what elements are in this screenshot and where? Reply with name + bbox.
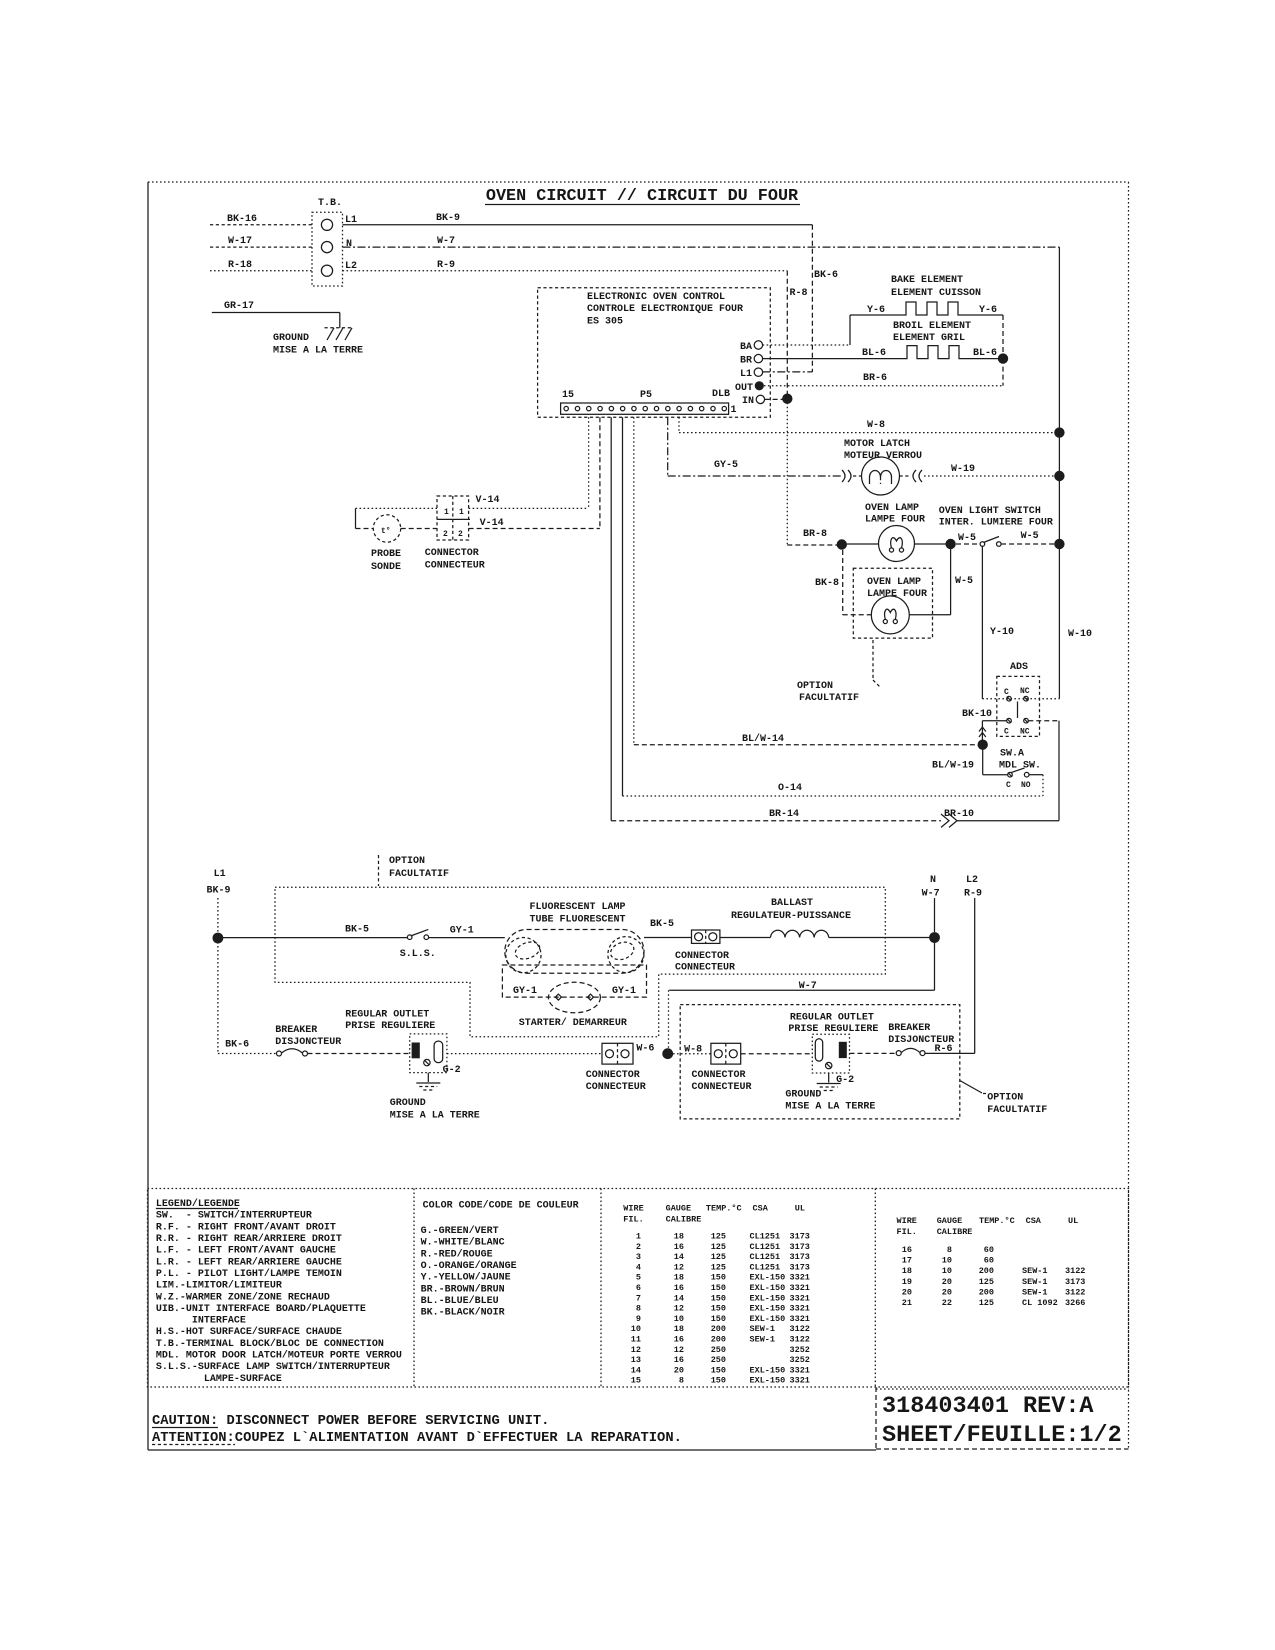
svg-text:BR: BR bbox=[740, 356, 752, 367]
svg-text:SHEET/FEUILLE:1/2: SHEET/FEUILLE:1/2 bbox=[882, 1422, 1122, 1449]
svg-text:9: 9 bbox=[636, 1314, 641, 1324]
svg-text:BALLAST: BALLAST bbox=[771, 898, 813, 909]
svg-text:6: 6 bbox=[636, 1283, 641, 1293]
svg-text:SEW-1: SEW-1 bbox=[1022, 1277, 1048, 1287]
svg-text:W-5: W-5 bbox=[955, 576, 973, 587]
svg-text:OVEN LAMP: OVEN LAMP bbox=[867, 577, 921, 588]
svg-text:2: 2 bbox=[443, 530, 448, 539]
svg-text:R.F. - RIGHT FRONT/AVANT DROIT: R.F. - RIGHT FRONT/AVANT DROIT bbox=[156, 1221, 336, 1233]
svg-text:PRISE REGULIERE: PRISE REGULIERE bbox=[788, 1024, 878, 1035]
svg-text:3173: 3173 bbox=[790, 1252, 810, 1262]
svg-text:NC: NC bbox=[1020, 728, 1030, 737]
svg-text:BL.-BLUE/BLEU: BL.-BLUE/BLEU bbox=[421, 1295, 499, 1307]
svg-text:V-14: V-14 bbox=[480, 518, 504, 529]
svg-text:CONNECTEUR: CONNECTEUR bbox=[586, 1082, 646, 1093]
svg-text:125: 125 bbox=[711, 1232, 726, 1242]
svg-text:W-8: W-8 bbox=[867, 420, 885, 431]
svg-text:BL/W-19: BL/W-19 bbox=[932, 760, 974, 772]
svg-text:150: 150 bbox=[711, 1293, 726, 1303]
svg-text:TEMP.°C: TEMP.°C bbox=[706, 1204, 742, 1214]
svg-text:SONDE: SONDE bbox=[371, 562, 401, 573]
svg-text:CONNECTOR: CONNECTOR bbox=[675, 951, 729, 962]
svg-text:17: 17 bbox=[902, 1256, 912, 1266]
svg-text:R.R. - RIGHT REAR/ARRIERE DROI: R.R. - RIGHT REAR/ARRIERE DROIT bbox=[156, 1233, 342, 1245]
svg-text:FIL.: FIL. bbox=[623, 1215, 643, 1225]
svg-text:LAMPE FOUR: LAMPE FOUR bbox=[867, 589, 927, 600]
svg-text:T.B.: T.B. bbox=[318, 198, 342, 209]
svg-text:12: 12 bbox=[674, 1262, 684, 1272]
svg-text:GAUGE: GAUGE bbox=[937, 1216, 963, 1226]
svg-text:GY-5: GY-5 bbox=[714, 460, 738, 471]
svg-text:MOTOR LATCH: MOTOR LATCH bbox=[844, 439, 910, 450]
svg-text:16: 16 bbox=[674, 1355, 684, 1365]
svg-text:W.Z.-WARMER ZONE/ZONE RECHAUD: W.Z.-WARMER ZONE/ZONE RECHAUD bbox=[156, 1291, 330, 1303]
svg-text:CALIBRE: CALIBRE bbox=[666, 1215, 702, 1225]
svg-text:CL1251: CL1251 bbox=[750, 1232, 781, 1242]
svg-text:G-2: G-2 bbox=[836, 1075, 854, 1086]
svg-text:125: 125 bbox=[979, 1277, 994, 1287]
svg-text:EXL-150: EXL-150 bbox=[750, 1376, 786, 1386]
svg-text:CONNECTEUR: CONNECTEUR bbox=[425, 561, 485, 572]
svg-text:W-6: W-6 bbox=[636, 1044, 654, 1055]
svg-text:BREAKER: BREAKER bbox=[888, 1023, 930, 1034]
svg-text:BR.-BROWN/BRUN: BR.-BROWN/BRUN bbox=[421, 1283, 505, 1295]
svg-text:3173: 3173 bbox=[790, 1232, 810, 1242]
svg-text:BL-6: BL-6 bbox=[862, 348, 886, 359]
svg-text:G.-GREEN/VERT: G.-GREEN/VERT bbox=[421, 1225, 499, 1237]
svg-text:OPTION: OPTION bbox=[389, 856, 425, 867]
svg-text:3122: 3122 bbox=[790, 1335, 810, 1345]
svg-text:12: 12 bbox=[631, 1345, 641, 1355]
svg-text:BK-9: BK-9 bbox=[207, 886, 231, 897]
svg-text:ELEMENT GRIL: ELEMENT GRIL bbox=[893, 333, 965, 344]
svg-text:2: 2 bbox=[636, 1242, 641, 1252]
svg-text:13: 13 bbox=[631, 1355, 641, 1365]
svg-text:R-8: R-8 bbox=[790, 288, 808, 299]
svg-text:GR-17: GR-17 bbox=[224, 301, 254, 312]
svg-text:15: 15 bbox=[631, 1376, 641, 1386]
svg-text:60: 60 bbox=[984, 1256, 994, 1266]
svg-text:L1: L1 bbox=[214, 869, 226, 880]
svg-text:21: 21 bbox=[902, 1298, 912, 1308]
svg-text:CONNECTEUR: CONNECTEUR bbox=[675, 963, 735, 974]
svg-text:150: 150 bbox=[711, 1314, 726, 1324]
svg-text:10: 10 bbox=[942, 1256, 952, 1266]
svg-text:Y-6: Y-6 bbox=[979, 305, 997, 316]
svg-text:SEW-1: SEW-1 bbox=[1022, 1266, 1048, 1276]
svg-text:ELEMENT CUISSON: ELEMENT CUISSON bbox=[891, 288, 981, 299]
svg-text:250: 250 bbox=[711, 1345, 726, 1355]
svg-text:150: 150 bbox=[711, 1283, 726, 1293]
svg-text:3321: 3321 bbox=[790, 1283, 810, 1293]
svg-text:P5: P5 bbox=[640, 390, 652, 401]
svg-text:EXL-150: EXL-150 bbox=[750, 1304, 786, 1314]
svg-text:ES 305: ES 305 bbox=[587, 317, 623, 328]
svg-text:BK-8: BK-8 bbox=[815, 578, 839, 589]
svg-text:C: C bbox=[1004, 688, 1009, 697]
svg-text:LAMPE-SURFACE: LAMPE-SURFACE bbox=[156, 1374, 282, 1385]
svg-text:O.-ORANGE/ORANGE: O.-ORANGE/ORANGE bbox=[421, 1260, 517, 1272]
svg-text:125: 125 bbox=[711, 1242, 726, 1252]
svg-text:20: 20 bbox=[942, 1277, 952, 1287]
svg-text:T.B.-TERMINAL BLOCK/BLOC DE CO: T.B.-TERMINAL BLOCK/BLOC DE CONNECTION bbox=[156, 1338, 384, 1350]
svg-text:BR-8: BR-8 bbox=[803, 529, 827, 540]
svg-text:GROUND: GROUND bbox=[785, 1090, 821, 1101]
svg-text:200: 200 bbox=[979, 1266, 994, 1276]
svg-text:150: 150 bbox=[711, 1376, 726, 1386]
svg-text:BREAKER: BREAKER bbox=[275, 1025, 317, 1036]
svg-text:LAMPE FOUR: LAMPE FOUR bbox=[865, 515, 925, 526]
svg-text:L2: L2 bbox=[966, 875, 978, 886]
svg-text:REGULAR OUTLET: REGULAR OUTLET bbox=[790, 1013, 874, 1024]
svg-text:22: 22 bbox=[942, 1298, 952, 1308]
svg-text:8: 8 bbox=[947, 1245, 952, 1255]
svg-text:Y-10: Y-10 bbox=[990, 627, 1014, 638]
svg-text:BR-6: BR-6 bbox=[863, 373, 887, 384]
svg-text:OUT: OUT bbox=[735, 383, 753, 394]
svg-text:L.F. - LEFT FRONT/AVANT GAUCHE: L.F. - LEFT FRONT/AVANT GAUCHE bbox=[156, 1245, 336, 1257]
svg-text:t°: t° bbox=[381, 527, 391, 536]
svg-text:W-19: W-19 bbox=[951, 464, 975, 475]
svg-text:3173: 3173 bbox=[790, 1262, 810, 1272]
svg-text:18: 18 bbox=[674, 1232, 684, 1242]
svg-text:3173: 3173 bbox=[1065, 1277, 1085, 1287]
svg-text:FIL.: FIL. bbox=[897, 1227, 917, 1237]
svg-text:8: 8 bbox=[636, 1304, 641, 1314]
svg-text:200: 200 bbox=[711, 1324, 726, 1334]
svg-text:125: 125 bbox=[711, 1252, 726, 1262]
svg-text:OPTION: OPTION bbox=[797, 681, 833, 692]
svg-text:FLUORESCENT LAMP: FLUORESCENT LAMP bbox=[530, 902, 626, 913]
svg-text:250: 250 bbox=[711, 1355, 726, 1365]
svg-text:BK-9: BK-9 bbox=[436, 213, 460, 224]
svg-text:INTER. LUMIERE FOUR: INTER. LUMIERE FOUR bbox=[939, 518, 1053, 529]
svg-text:CSA: CSA bbox=[1026, 1216, 1042, 1226]
svg-text:OVEN CIRCUIT // CIRCUIT DU FOU: OVEN CIRCUIT // CIRCUIT DU FOUR bbox=[486, 187, 799, 206]
svg-text:125: 125 bbox=[711, 1262, 726, 1272]
svg-text:19: 19 bbox=[902, 1277, 912, 1287]
svg-text:3252: 3252 bbox=[790, 1345, 810, 1355]
svg-text:PROBE: PROBE bbox=[371, 549, 401, 560]
svg-text:DISJONCTEUR: DISJONCTEUR bbox=[275, 1037, 341, 1048]
svg-text:7: 7 bbox=[636, 1293, 641, 1303]
svg-text:BK-5: BK-5 bbox=[650, 919, 674, 930]
svg-text:DLB: DLB bbox=[712, 389, 730, 400]
svg-text:150: 150 bbox=[711, 1365, 726, 1375]
svg-text:16: 16 bbox=[902, 1245, 912, 1255]
svg-text:CL 1092: CL 1092 bbox=[1022, 1298, 1058, 1308]
svg-text:3122: 3122 bbox=[790, 1324, 810, 1334]
svg-text:EXL-150: EXL-150 bbox=[750, 1365, 786, 1375]
svg-text:3321: 3321 bbox=[790, 1314, 810, 1324]
svg-text:OVEN LIGHT SWITCH: OVEN LIGHT SWITCH bbox=[939, 506, 1041, 517]
svg-text:REGULATEUR-PUISSANCE: REGULATEUR-PUISSANCE bbox=[731, 911, 851, 922]
svg-text:16: 16 bbox=[674, 1335, 684, 1345]
svg-text:N: N bbox=[930, 875, 936, 886]
svg-text:3173: 3173 bbox=[790, 1242, 810, 1252]
svg-text:SW. - SWITCH/INTERRUPTEUR: SW. - SWITCH/INTERRUPTEUR bbox=[156, 1210, 312, 1222]
svg-text:BK-5: BK-5 bbox=[345, 925, 369, 936]
svg-text:60: 60 bbox=[984, 1245, 994, 1255]
svg-text:W-5: W-5 bbox=[1021, 531, 1039, 542]
svg-text:MISE A LA TERRE: MISE A LA TERRE bbox=[390, 1111, 480, 1122]
svg-text:15: 15 bbox=[562, 390, 574, 401]
svg-text:FACULTATIF: FACULTATIF bbox=[799, 693, 859, 704]
svg-text:LIM.-LIMITOR/LIMITEUR: LIM.-LIMITOR/LIMITEUR bbox=[156, 1280, 282, 1292]
svg-text:GROUND: GROUND bbox=[273, 333, 309, 344]
svg-text:20: 20 bbox=[674, 1365, 684, 1375]
svg-text:16: 16 bbox=[674, 1283, 684, 1293]
svg-text:CONNECTEUR: CONNECTEUR bbox=[692, 1082, 752, 1093]
svg-text:L1: L1 bbox=[740, 369, 752, 380]
svg-text:GAUGE: GAUGE bbox=[666, 1204, 692, 1214]
svg-text:200: 200 bbox=[711, 1335, 726, 1345]
svg-text:EXL-150: EXL-150 bbox=[750, 1314, 786, 1324]
svg-text:3321: 3321 bbox=[790, 1293, 810, 1303]
svg-text:C: C bbox=[1004, 728, 1009, 737]
svg-text:OPTION: OPTION bbox=[987, 1093, 1023, 1104]
svg-text:125: 125 bbox=[979, 1298, 994, 1308]
svg-text:3321: 3321 bbox=[790, 1365, 810, 1375]
svg-text:BROIL ELEMENT: BROIL ELEMENT bbox=[893, 321, 971, 332]
svg-text:ADS: ADS bbox=[1010, 662, 1028, 673]
svg-text:WIRE: WIRE bbox=[897, 1216, 917, 1226]
svg-text:8: 8 bbox=[679, 1376, 684, 1386]
svg-text:18: 18 bbox=[902, 1266, 912, 1276]
svg-text:TEMP.°C: TEMP.°C bbox=[979, 1216, 1015, 1226]
svg-text:W-17: W-17 bbox=[228, 236, 252, 247]
svg-text:MDL. MOTOR DOOR LATCH/MOTEUR P: MDL. MOTOR DOOR LATCH/MOTEUR PORTE VERRO… bbox=[156, 1350, 402, 1362]
svg-text:MISE A LA TERRE: MISE A LA TERRE bbox=[273, 346, 363, 357]
svg-text:UIB.-UNIT INTERFACE BOARD/PLAQ: UIB.-UNIT INTERFACE BOARD/PLAQUETTE bbox=[156, 1303, 366, 1315]
svg-text:318403401 REV:A: 318403401 REV:A bbox=[882, 1393, 1094, 1420]
svg-text:BAKE ELEMENT: BAKE ELEMENT bbox=[891, 275, 963, 286]
svg-text:16: 16 bbox=[674, 1242, 684, 1252]
svg-text:BK.-BLACK/NOIR: BK.-BLACK/NOIR bbox=[421, 1307, 505, 1319]
svg-text:H.S.-HOT SURFACE/SURFACE CHAUD: H.S.-HOT SURFACE/SURFACE CHAUDE bbox=[156, 1326, 342, 1338]
svg-text:Y.-YELLOW/JAUNE: Y.-YELLOW/JAUNE bbox=[421, 1272, 511, 1284]
svg-text:GY-1: GY-1 bbox=[612, 986, 636, 997]
svg-text:W-7: W-7 bbox=[922, 889, 940, 900]
svg-text:18: 18 bbox=[674, 1324, 684, 1334]
svg-text:SW.A: SW.A bbox=[1000, 749, 1024, 760]
svg-text:14: 14 bbox=[674, 1293, 684, 1303]
svg-text:20: 20 bbox=[942, 1287, 952, 1297]
svg-text:3252: 3252 bbox=[790, 1355, 810, 1365]
svg-text:OVEN LAMP: OVEN LAMP bbox=[865, 503, 919, 514]
svg-text:V-14: V-14 bbox=[476, 495, 500, 506]
svg-text:3: 3 bbox=[636, 1252, 641, 1262]
svg-text:O-14: O-14 bbox=[778, 783, 802, 794]
svg-text:S.L.S.-SURFACE LAMP SWITCH/INT: S.L.S.-SURFACE LAMP SWITCH/INTERRUPTEUR bbox=[156, 1361, 390, 1373]
svg-text:R-18: R-18 bbox=[228, 260, 252, 271]
svg-text:12: 12 bbox=[674, 1304, 684, 1314]
svg-text:10: 10 bbox=[631, 1324, 641, 1334]
svg-text:BR-10: BR-10 bbox=[944, 809, 974, 820]
svg-text:R-9: R-9 bbox=[964, 889, 982, 900]
svg-text:NC: NC bbox=[1020, 687, 1030, 696]
svg-text:3122: 3122 bbox=[1065, 1266, 1085, 1276]
svg-text:3266: 3266 bbox=[1065, 1298, 1085, 1308]
svg-text:GY-1: GY-1 bbox=[450, 926, 474, 937]
svg-text:PRISE REGULIERE: PRISE REGULIERE bbox=[345, 1021, 435, 1032]
svg-text:W.-WHITE/BLANC: W.-WHITE/BLANC bbox=[421, 1237, 505, 1249]
svg-text:CL1251: CL1251 bbox=[750, 1242, 781, 1252]
svg-text:SEW-1: SEW-1 bbox=[750, 1335, 776, 1345]
svg-text:10: 10 bbox=[674, 1314, 684, 1324]
svg-text:1: 1 bbox=[459, 508, 464, 517]
svg-text:3321: 3321 bbox=[790, 1376, 810, 1386]
svg-text:MISE A LA TERRE: MISE A LA TERRE bbox=[785, 1102, 875, 1113]
svg-text:CSA: CSA bbox=[753, 1204, 769, 1214]
svg-text:BK-16: BK-16 bbox=[227, 214, 257, 225]
svg-text:REGULAR OUTLET: REGULAR OUTLET bbox=[345, 1010, 429, 1021]
svg-text:BL-6: BL-6 bbox=[973, 348, 997, 359]
svg-text:WIRE: WIRE bbox=[623, 1204, 643, 1214]
svg-text:18: 18 bbox=[674, 1273, 684, 1283]
svg-text:EXL-150: EXL-150 bbox=[750, 1283, 786, 1293]
svg-text:CONNECTOR: CONNECTOR bbox=[692, 1070, 746, 1081]
svg-text:2: 2 bbox=[458, 530, 463, 539]
svg-text:1: 1 bbox=[731, 405, 737, 416]
svg-text:S.L.S.: S.L.S. bbox=[400, 949, 436, 960]
svg-text:BK-6: BK-6 bbox=[814, 270, 838, 281]
svg-text:CONNECTOR: CONNECTOR bbox=[586, 1070, 640, 1081]
svg-text:FACULTATIF: FACULTATIF bbox=[987, 1105, 1047, 1116]
svg-text:14: 14 bbox=[674, 1252, 684, 1262]
svg-text:W-7: W-7 bbox=[437, 236, 455, 247]
svg-text:3321: 3321 bbox=[790, 1273, 810, 1283]
svg-text:MOTEUR VERROU: MOTEUR VERROU bbox=[844, 451, 922, 462]
svg-text:R-6: R-6 bbox=[935, 1044, 953, 1055]
svg-text:Y-6: Y-6 bbox=[867, 305, 885, 316]
svg-text:ATTENTION:COUPEZ L`ALIMENTATIO: ATTENTION:COUPEZ L`ALIMENTATION AVANT D`… bbox=[152, 1430, 682, 1446]
svg-text:L.R. - LEFT REAR/ARRIERE GAUCH: L.R. - LEFT REAR/ARRIERE GAUCHE bbox=[156, 1256, 342, 1268]
svg-text:CL1251: CL1251 bbox=[750, 1262, 781, 1272]
svg-text:1: 1 bbox=[636, 1232, 641, 1242]
svg-text:COLOR CODE/CODE DE COULEUR: COLOR CODE/CODE DE COULEUR bbox=[423, 1200, 579, 1212]
svg-text:G-2: G-2 bbox=[443, 1065, 461, 1076]
svg-text:EXL-150: EXL-150 bbox=[750, 1293, 786, 1303]
svg-text:4: 4 bbox=[636, 1262, 641, 1272]
svg-text:14: 14 bbox=[631, 1365, 641, 1375]
svg-text:5: 5 bbox=[636, 1273, 641, 1283]
svg-text:150: 150 bbox=[711, 1304, 726, 1314]
svg-text:IN: IN bbox=[742, 396, 754, 407]
svg-text:C: C bbox=[1006, 781, 1011, 790]
svg-text:TUBE FLUORESCENT: TUBE FLUORESCENT bbox=[530, 915, 626, 926]
svg-text:CL1251: CL1251 bbox=[750, 1252, 781, 1262]
svg-text:CALIBRE: CALIBRE bbox=[937, 1227, 973, 1237]
svg-text:12: 12 bbox=[674, 1345, 684, 1355]
svg-text:3321: 3321 bbox=[790, 1304, 810, 1314]
svg-text:R.-RED/ROUGE: R.-RED/ROUGE bbox=[421, 1248, 493, 1260]
svg-text:W-10: W-10 bbox=[1068, 629, 1092, 640]
svg-text:BK-10: BK-10 bbox=[962, 709, 992, 720]
svg-text:INTERFACE: INTERFACE bbox=[156, 1316, 246, 1327]
svg-text:150: 150 bbox=[711, 1273, 726, 1283]
svg-text:BR-14: BR-14 bbox=[769, 809, 799, 820]
svg-text:1: 1 bbox=[444, 508, 449, 517]
svg-text:EXL-150: EXL-150 bbox=[750, 1273, 786, 1283]
svg-text:UL: UL bbox=[1068, 1216, 1078, 1226]
svg-text:CAUTION: DISCONNECT POWER BEFO: CAUTION: DISCONNECT POWER BEFORE SERVICI… bbox=[152, 1414, 549, 1429]
svg-text:20: 20 bbox=[902, 1287, 912, 1297]
svg-text:GY-1: GY-1 bbox=[513, 986, 537, 997]
svg-text:FACULTATIF: FACULTATIF bbox=[389, 869, 449, 880]
svg-text:N: N bbox=[346, 239, 352, 250]
svg-text:200: 200 bbox=[979, 1287, 994, 1297]
svg-text:11: 11 bbox=[631, 1335, 641, 1345]
svg-text:CONTROLE ELECTRONIQUE FOUR: CONTROLE ELECTRONIQUE FOUR bbox=[587, 304, 743, 315]
svg-text:BK-6: BK-6 bbox=[225, 1040, 249, 1051]
svg-text:P.L. - PILOT LIGHT/LAMPE TEMOI: P.L. - PILOT LIGHT/LAMPE TEMOIN bbox=[156, 1268, 342, 1280]
svg-text:STARTER/ DEMARREUR: STARTER/ DEMARREUR bbox=[519, 1017, 627, 1029]
svg-text:10: 10 bbox=[942, 1266, 952, 1276]
svg-text:SEW-1: SEW-1 bbox=[750, 1324, 776, 1334]
svg-text:UL: UL bbox=[795, 1204, 805, 1214]
svg-text:GROUND: GROUND bbox=[390, 1098, 426, 1109]
svg-text:NO: NO bbox=[1021, 781, 1031, 790]
svg-text:W-5: W-5 bbox=[958, 533, 976, 544]
svg-text:3122: 3122 bbox=[1065, 1287, 1085, 1297]
svg-text:BL/W-14: BL/W-14 bbox=[742, 733, 784, 745]
svg-text:SEW-1: SEW-1 bbox=[1022, 1287, 1048, 1297]
svg-text:ELECTRONIC OVEN CONTROL: ELECTRONIC OVEN CONTROL bbox=[587, 292, 725, 303]
svg-text:R-9: R-9 bbox=[437, 260, 455, 271]
svg-text:CONNECTOR: CONNECTOR bbox=[425, 548, 479, 559]
svg-text:BA: BA bbox=[740, 342, 752, 353]
